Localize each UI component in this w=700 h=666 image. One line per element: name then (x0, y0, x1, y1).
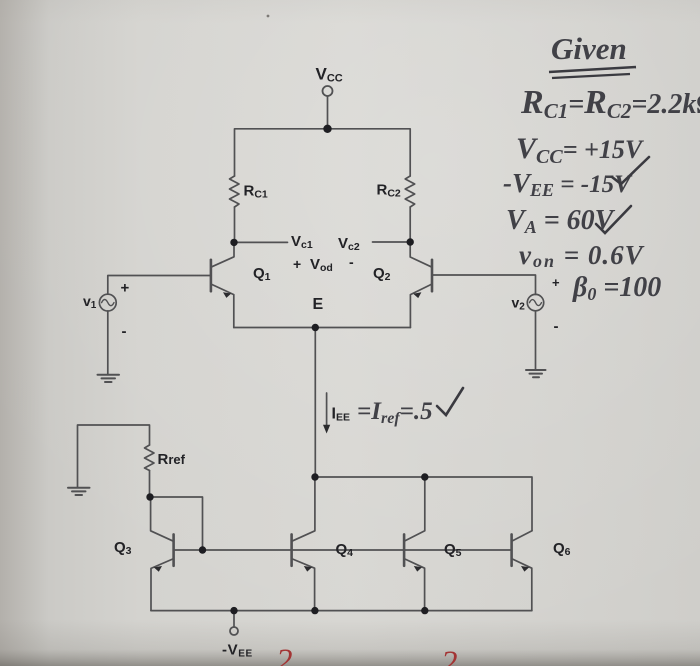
svg-text:+: + (121, 280, 130, 297)
svg-text:β0 =100: β0 =100 (572, 272, 661, 304)
printed labels (83, 65, 571, 660)
node Q4 collector rail (311, 473, 318, 480)
node Rref/Q3 (146, 493, 153, 500)
svg-text:Given: Given (551, 31, 627, 66)
svg-text:Rref: Rref (158, 451, 186, 468)
svg-text:-VEE = -15V: -VEE = -15V (503, 168, 633, 200)
wire Vc2 stub (373, 241, 411, 243)
svg-text:VA = 60V: VA = 60V (506, 205, 616, 237)
resistor RC2 (405, 176, 415, 207)
wire v1 to ground (107, 311, 109, 374)
wire RC2 to collector (409, 207, 411, 242)
svg-text:E: E (313, 296, 324, 313)
wire Vc1 stub (234, 241, 288, 243)
svg-text:-: - (349, 254, 354, 270)
node E (312, 324, 319, 331)
wire E to current mirror (314, 328, 316, 478)
source v2 (527, 294, 543, 310)
handwritten notes (357, 31, 700, 427)
wire diode connection Q3 (150, 497, 203, 550)
node Q2 collector (407, 238, 414, 245)
wire ground to Rref top (78, 425, 150, 487)
svg-text:-: - (122, 323, 127, 340)
svg-text:+: + (293, 256, 301, 272)
wire VCC stem (327, 96, 329, 129)
node Q1 collector (230, 239, 237, 246)
transistor Q6 (512, 531, 532, 611)
ground (v2) (526, 370, 546, 377)
ground (v1) (98, 375, 120, 382)
wire RC1 to collector (234, 207, 236, 242)
ground (Rref) (68, 488, 90, 495)
svg-text:2: 2 (276, 643, 293, 666)
transistor Q4 (292, 477, 315, 611)
current arrow IEE (323, 393, 330, 434)
red marks (276, 643, 458, 666)
wire Q2 base to v2 (432, 275, 536, 294)
transistor Q2 (410, 242, 432, 328)
wire v1 to Q1 base (108, 276, 211, 295)
node -VEE tap (230, 607, 237, 614)
transistor Q3 (151, 497, 174, 611)
wire emitter rail / node E (234, 327, 411, 329)
node base rail junction (199, 546, 206, 553)
node Q5 emitter rail (421, 607, 428, 614)
resistor Rref (145, 445, 155, 471)
node Q5 collector rail (421, 473, 428, 480)
transistor Q5 (404, 477, 425, 611)
resistor RC1 (230, 176, 240, 207)
svg-text:-: - (554, 318, 559, 335)
svg-text:2: 2 (441, 645, 458, 666)
svg-text:VCC= +15V: VCC= +15V (516, 132, 645, 168)
node VCC terminal (323, 86, 333, 96)
wire mirror base rail (174, 549, 512, 551)
source v1 (99, 294, 116, 311)
speck (267, 15, 270, 18)
wire Q5/Q6 collector rail (315, 477, 532, 531)
wire top rail (235, 129, 411, 176)
node VCC rail junction (323, 125, 331, 133)
node -VEE terminal (233, 611, 235, 627)
wire Rref to Q3 collector (149, 471, 151, 498)
wire bottom rail (151, 610, 532, 612)
wire v2 to ground (535, 311, 537, 370)
svg-text:+: + (552, 275, 560, 290)
node Q4 emitter rail (311, 607, 318, 614)
transistor Q1 (211, 242, 234, 327)
